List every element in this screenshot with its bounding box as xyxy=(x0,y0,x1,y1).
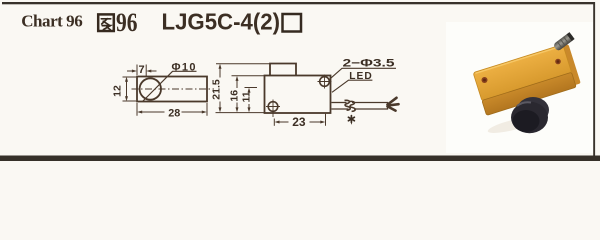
cable break squiggle xyxy=(345,100,351,110)
dim 12 (left) xyxy=(123,77,137,101)
centerline xyxy=(132,88,215,90)
sensing circle xyxy=(140,78,161,99)
right frame rule xyxy=(593,2,595,161)
hole top-right xyxy=(320,77,330,87)
sensing head bump xyxy=(270,64,296,76)
dim 21.5 xyxy=(216,64,271,113)
LED underline + leader xyxy=(332,80,372,92)
sensing head cylinder xyxy=(517,97,549,123)
bottom frame bar xyxy=(0,156,600,162)
svg-text:96: 96 xyxy=(116,8,138,37)
svg-text:16: 16 xyxy=(229,90,241,102)
svg-text:12: 12 xyxy=(111,85,123,97)
svg-text:7: 7 xyxy=(139,64,145,76)
hole bottom-left xyxy=(268,102,278,112)
svg-text:23: 23 xyxy=(292,115,306,129)
screw hole left xyxy=(482,77,488,83)
dim 16 xyxy=(232,76,265,110)
svg-text:LJG5C-4(2): LJG5C-4(2) xyxy=(162,8,281,34)
soft shadow under sensor xyxy=(487,114,540,136)
dim 11 xyxy=(245,88,258,110)
page background xyxy=(0,0,600,161)
svg-text:2−Φ3.5: 2−Φ3.5 xyxy=(343,57,395,69)
svg-text:21.5: 21.5 xyxy=(210,79,222,100)
wire fork xyxy=(388,98,399,111)
dim 23 xyxy=(274,114,325,126)
dim 7 (top) xyxy=(127,65,157,78)
svg-text:Chart 96: Chart 96 xyxy=(21,11,82,30)
svg-text:Φ10: Φ10 xyxy=(172,61,196,73)
title box suffix xyxy=(283,14,302,32)
CJK glyph 图 (drawn) xyxy=(98,14,114,31)
body right end face xyxy=(560,44,580,86)
cable stub xyxy=(553,32,575,52)
screw hole right xyxy=(555,59,561,65)
photo background xyxy=(446,22,593,153)
end view body rect xyxy=(137,77,207,102)
top edge highlight xyxy=(475,47,560,74)
dim 28 (bottom) xyxy=(137,103,207,116)
asterisk footnote xyxy=(348,116,354,124)
svg-text:28: 28 xyxy=(168,107,180,119)
svg-text:11: 11 xyxy=(240,91,252,102)
body front face xyxy=(482,72,576,115)
top frame rule xyxy=(2,2,595,4)
sensor body (3d) xyxy=(473,43,581,116)
body top face xyxy=(473,44,572,101)
leader line for dia 10 xyxy=(143,71,197,101)
side view body xyxy=(265,76,331,114)
cable band xyxy=(332,103,388,110)
leader with underline for 2-dia3.5 xyxy=(330,68,397,79)
